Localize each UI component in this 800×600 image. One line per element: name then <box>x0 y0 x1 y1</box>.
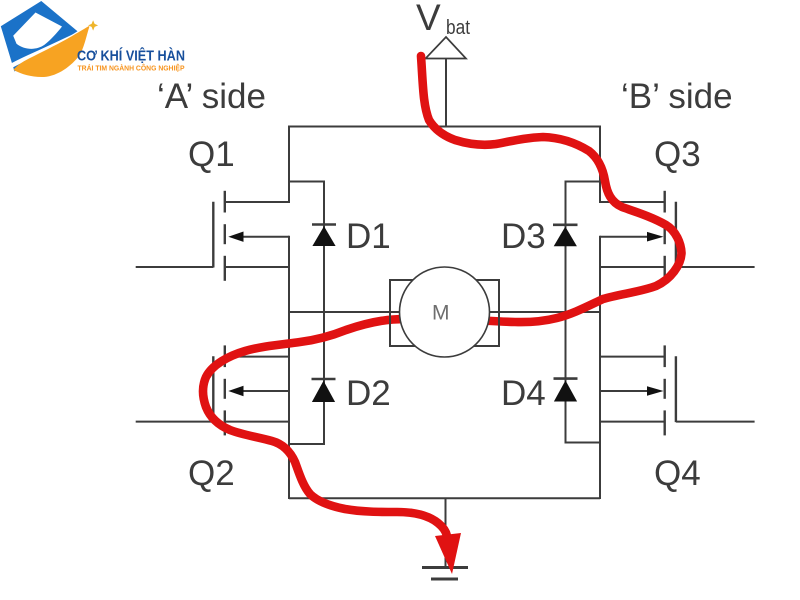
diode D2 <box>312 379 336 402</box>
svg-text:TRÁI TIM NGÀNH CÔNG NGHIỆP: TRÁI TIM NGÀNH CÔNG NGHIỆP <box>78 64 185 73</box>
svg-text:D2: D2 <box>346 374 391 413</box>
Vbat stem wire <box>445 59 447 127</box>
red arrowhead <box>435 533 461 574</box>
Q1 gate lead wire <box>136 266 214 268</box>
Q4 gate lead wire <box>676 421 755 423</box>
right edge wire lower <box>599 236 601 499</box>
logo mark blue pentagon <box>1 1 78 72</box>
svg-text:V: V <box>416 0 441 38</box>
svg-text:‘A’ side: ‘A’ side <box>157 77 266 116</box>
motor wire <box>289 311 600 313</box>
svg-text:CƠ KHÍ VIỆT HÀN: CƠ KHÍ VIỆT HÀN <box>77 47 185 65</box>
D2 branch wire <box>289 312 324 444</box>
diode D1 <box>312 225 336 247</box>
svg-text:Q2: Q2 <box>188 454 235 493</box>
svg-text:M: M <box>432 302 450 325</box>
right edge wire upper <box>599 126 601 204</box>
svg-text:D1: D1 <box>346 217 391 256</box>
diode D3 <box>553 225 578 247</box>
Q3 gate lead wire <box>676 266 755 268</box>
left edge wire lower <box>288 236 290 499</box>
svg-text:‘B’ side: ‘B’ side <box>621 77 733 116</box>
logo swoosh orange <box>14 26 90 77</box>
diode D4 <box>554 379 578 402</box>
D1 branch wire <box>289 182 324 313</box>
svg-text:D3: D3 <box>501 217 546 256</box>
ground wire stem <box>445 498 447 567</box>
Q2 gate lead wire <box>136 421 214 423</box>
svg-text:bat: bat <box>446 17 470 39</box>
transistor Q3 <box>600 191 676 281</box>
svg-text:Q3: Q3 <box>654 135 701 174</box>
svg-text:Q1: Q1 <box>188 135 235 174</box>
top rail wire <box>289 126 600 128</box>
Vbat triangle <box>426 37 467 59</box>
D3 branch wire <box>566 182 601 313</box>
ground <box>422 568 468 580</box>
svg-text:D4: D4 <box>501 374 546 413</box>
D4 branch wire <box>566 312 601 443</box>
transistor Q1 <box>213 191 289 281</box>
transistor Q4 <box>600 345 676 435</box>
transistor Q2 <box>213 345 289 435</box>
logo star <box>88 20 98 30</box>
logo white swoosh gap <box>7 31 85 69</box>
svg-text:Q4: Q4 <box>654 454 701 493</box>
bottom rail wire <box>289 497 600 499</box>
motor M1 <box>390 267 499 357</box>
red current path <box>203 56 682 536</box>
left edge wire upper <box>288 126 290 204</box>
